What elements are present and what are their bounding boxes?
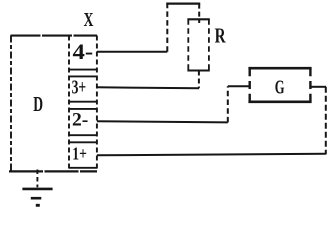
terminal 2- box — [69, 109, 97, 135]
device box D — [9, 36, 97, 172]
svg-text:D: D — [33, 92, 43, 116]
terminal strip X outline — [69, 36, 97, 172]
resistor R — [187, 19, 209, 70]
svg-text:4-: 4- — [73, 39, 94, 64]
terminal 4- box — [69, 69, 97, 71]
terminal 3+ box — [69, 76, 97, 101]
svg-text:3+: 3+ — [72, 77, 87, 99]
svg-text:G: G — [275, 77, 285, 99]
svg-text:R: R — [215, 23, 227, 47]
generator G — [248, 68, 311, 102]
wire terminal 4- to resistor R — [97, 4, 200, 52]
terminal 1+ box — [69, 142, 97, 168]
svg-text:2-: 2- — [72, 110, 88, 131]
ground — [22, 170, 52, 206]
wire resistor R to terminal 3+ — [97, 71, 199, 89]
wire terminal 2- to generator G — [97, 86, 250, 122]
svg-text:X: X — [84, 9, 94, 31]
svg-text:1+: 1+ — [72, 144, 87, 164]
wire generator G to terminal 1+ — [97, 87, 326, 156]
